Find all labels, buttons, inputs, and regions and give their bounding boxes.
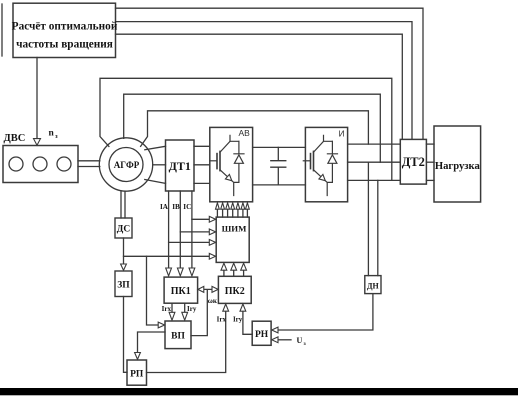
wire: ДТ1 to АВ phase 3 bbox=[194, 182, 210, 184]
arrowhead: Iry into ПК2 bbox=[240, 304, 246, 311]
wire: ДТ2 to Нагрузка phase 2 bbox=[426, 161, 434, 163]
arrowhead: PWM 4 into АВ bbox=[231, 203, 235, 209]
wire: current IB down to ПК1 bbox=[179, 191, 181, 268]
wire: calc box output 2 to ДТ2 top bbox=[116, 22, 413, 140]
wire: И to ДТ2 phase h3 bbox=[348, 179, 401, 181]
arrowhead: PWM 2 into АВ bbox=[221, 203, 225, 209]
svg-text:n: n bbox=[49, 129, 55, 139]
wire: DC bus negative АВ-И bbox=[253, 184, 306, 186]
svg-text:IA: IA bbox=[160, 203, 169, 211]
wire: IA tap to ШИМ bbox=[169, 241, 210, 243]
svg-text:ДТ1: ДТ1 bbox=[169, 159, 191, 173]
arrowhead: PWM 6 into АВ bbox=[241, 203, 245, 209]
arrowhead: Irx into ВП bbox=[169, 312, 175, 320]
arrowhead: into РП top bbox=[135, 353, 141, 360]
arrowhead: ПК2 out2 into ШИМ bbox=[231, 263, 237, 270]
wire: ДН tap from h3 bbox=[377, 180, 379, 275]
wire: ПК2 output 3 up to ШИМ bbox=[243, 270, 245, 276]
svg-text:Irx: Irx bbox=[217, 315, 227, 323]
svg-text:РН: РН bbox=[255, 330, 269, 340]
wire: ДН tap from h2 bbox=[367, 162, 369, 275]
wire: РН output to ПК2 Iry bbox=[243, 311, 252, 334]
wire: stub at left page edge bbox=[1, 4, 3, 56]
arrowhead: speed into ШИМ bbox=[209, 253, 215, 259]
arrowhead: IA tap into ШИМ bbox=[209, 240, 215, 246]
svg-text:ДТ2: ДТ2 bbox=[402, 155, 425, 169]
arrowhead: ПК2 out1 into ШИМ bbox=[221, 263, 227, 270]
block ДВС (engine) bbox=[3, 146, 78, 183]
arrowhead: PWM 5 into АВ bbox=[236, 203, 240, 209]
wire: stator phase A from АГФР to bus h3 bbox=[100, 78, 392, 180]
svg-text:ШИМ: ШИМ bbox=[222, 223, 248, 233]
arrowhead: n3 into ДВС bbox=[34, 139, 41, 146]
transistor VT with diode inside АВ bbox=[210, 135, 244, 195]
arrowhead: IB tap into ШИМ bbox=[209, 229, 215, 235]
wire: И to ДТ2 phase h1 bbox=[348, 143, 401, 145]
machine АГФР inner circle bbox=[109, 148, 143, 182]
block ПК1 coordinate converter 1 bbox=[164, 277, 198, 303]
svg-text:Irx: Irx bbox=[162, 305, 172, 313]
wire: ВП left to РП bbox=[138, 332, 166, 353]
black separator bar bbox=[0, 388, 518, 395]
wire: ДТ1 to АВ phase 2 bbox=[194, 164, 210, 166]
svg-text:ДН: ДН bbox=[367, 282, 380, 291]
block ДС speed sensor bbox=[115, 218, 132, 238]
arrowhead: IB into ПК1 bbox=[177, 268, 183, 276]
svg-text:ωк: ωк bbox=[208, 297, 218, 305]
transistor VT with diode inside И bbox=[303, 135, 337, 195]
wire: PWM gate line 6 to АВ bbox=[242, 209, 244, 217]
block ШИМ PWM bbox=[216, 217, 249, 262]
svg-text:ЗП: ЗП bbox=[117, 281, 130, 291]
wire: ДС output down to ЗП bbox=[123, 238, 125, 264]
block РП regulator bbox=[127, 360, 147, 385]
wire: speed branch to ВП bbox=[147, 256, 159, 325]
block ВП computing unit bbox=[165, 321, 191, 349]
svg-text:Iry: Iry bbox=[233, 315, 243, 323]
wire: rotor lead bottom to ДТ1 bbox=[145, 180, 166, 184]
arrowhead: speed into ВП bbox=[158, 322, 164, 328]
arrowhead: PWM 7 into АВ bbox=[246, 203, 250, 209]
svg-text:АВ: АВ bbox=[239, 128, 251, 138]
capacitor C DC-link bbox=[271, 147, 286, 185]
svg-text:ВП: ВП bbox=[171, 332, 185, 342]
wire: calc box output 3 to ДТ2 top bbox=[116, 34, 403, 139]
svg-text:IC: IC bbox=[183, 203, 191, 211]
engine cylinder circle 2 bbox=[33, 157, 47, 171]
wire: ПК1 output Iry down to ВП bbox=[184, 303, 186, 312]
wire: ДТ1 to АВ phase 1 bbox=[194, 145, 210, 147]
svg-text:ДС: ДС bbox=[117, 225, 131, 235]
block ДН voltage sensor bbox=[365, 276, 381, 294]
block: Расчёт оптимальной частоты вращения bbox=[13, 3, 116, 57]
svg-text:И: И bbox=[339, 129, 345, 139]
block РН voltage regulator bbox=[252, 321, 271, 345]
machine АГФР outer circle bbox=[99, 138, 152, 191]
svg-text:ПК2: ПК2 bbox=[225, 286, 245, 297]
arrowhead: ДН into РН bbox=[272, 327, 278, 333]
svg-text:ДВС: ДВС bbox=[4, 133, 26, 144]
wire: ДТ2 to Нагрузка phase 1 bbox=[426, 143, 434, 145]
block ДТ1 current sensor bbox=[166, 140, 195, 191]
wire: shaft ДВС-АГФР lower bbox=[78, 166, 100, 168]
svg-text:з: з bbox=[55, 133, 58, 140]
arrowhead: ωк into ПК2 bbox=[212, 286, 218, 292]
wire: И to ДТ2 phase h2 bbox=[348, 161, 401, 163]
wire: U3 setpoint into РН bbox=[278, 339, 291, 341]
svg-text:Iry: Iry bbox=[187, 305, 197, 313]
block АВ active rectifier bbox=[210, 127, 253, 201]
arrowhead: PWM 1 into АВ bbox=[216, 203, 220, 209]
wire: shaft АГФР down to ДС left line bbox=[120, 191, 122, 218]
wire: current IA down to ПК1 bbox=[168, 191, 170, 268]
wire: calc box output 1 to ДТ2 top bbox=[116, 8, 424, 139]
wire: ДН output to РН bbox=[278, 294, 373, 330]
block ЗП setpoint bbox=[115, 271, 132, 297]
wire: ПК2 output 1 up to ШИМ bbox=[223, 270, 225, 276]
arrowhead: U3 into РН bbox=[272, 337, 278, 343]
wire: IC tap to ШИМ bbox=[192, 218, 209, 220]
arrowhead: Iry into ВП bbox=[182, 312, 188, 320]
wire: PWM gate line 4 to АВ bbox=[232, 209, 234, 217]
wire: PWM gate line 3 to АВ bbox=[227, 209, 229, 217]
arrowhead: IC tap into ШИМ bbox=[209, 216, 215, 222]
wire: РП output to ПК2 Irx bbox=[147, 311, 226, 372]
wire: ДТ2 to Нагрузка phase 3 bbox=[426, 179, 434, 181]
wire: ВП output ωк to tee bbox=[191, 289, 212, 335]
arrowhead: Irx into ПК2 bbox=[223, 304, 229, 311]
arrowhead: ДС into ЗП bbox=[121, 264, 127, 270]
wire: DC bus positive АВ-И bbox=[253, 146, 306, 148]
wire: rotor lead mid to ДТ1 bbox=[153, 164, 166, 166]
svg-text:АГФР: АГФР bbox=[114, 160, 140, 170]
arrowhead: PWM 3 into АВ bbox=[226, 203, 230, 209]
wire: ЗП down to РП bbox=[124, 297, 128, 373]
arrowhead: IA into ПК1 bbox=[166, 268, 172, 276]
engine cylinder circle 1 bbox=[9, 157, 23, 171]
arrowhead: IC into ПК1 bbox=[189, 268, 195, 276]
wire: stator phase C from АГФР to bus h1 bbox=[141, 111, 369, 147]
arrowhead: ПК2 out3 into ШИМ bbox=[241, 263, 247, 270]
block Нагрузка load bbox=[434, 126, 481, 202]
wire: rotor lead top to ДТ1 bbox=[145, 146, 166, 150]
block ДТ2 current sensor bbox=[400, 139, 426, 184]
wire: ПК2 output 2 up to ШИМ bbox=[233, 270, 235, 276]
block ПК2 coordinate converter 2 bbox=[218, 276, 251, 303]
wire: current IC down to ПК1 bbox=[191, 191, 193, 268]
svg-text:частоты вращения: частоты вращения bbox=[16, 39, 113, 51]
svg-text:Расчёт оптимальной: Расчёт оптимальной bbox=[12, 21, 118, 33]
wire: PWM gate line 5 to АВ bbox=[237, 209, 239, 217]
wire: speed signal to ШИМ bbox=[124, 255, 210, 257]
wire: IB tap to ШИМ bbox=[180, 231, 209, 233]
svg-text:РП: РП bbox=[130, 369, 144, 379]
svg-text:U: U bbox=[297, 336, 303, 345]
wire: PWM gate line 2 to АВ bbox=[222, 209, 224, 217]
svg-text:Нагрузка: Нагрузка bbox=[435, 161, 481, 172]
wire: PWM gate line 7 to АВ bbox=[246, 209, 248, 217]
svg-text:IB: IB bbox=[172, 203, 180, 211]
engine cylinder circle 3 bbox=[57, 157, 71, 171]
svg-text:ПК1: ПК1 bbox=[171, 286, 191, 297]
wire: PWM gate line 1 to АВ bbox=[216, 209, 218, 217]
wire: shaft АГФР down to ДС right line bbox=[124, 191, 126, 218]
wire: n3 setpoint down to ДВС bbox=[36, 58, 38, 139]
wire: ПК1 output Irx down to ВП bbox=[171, 303, 173, 312]
block И inverter bbox=[305, 127, 347, 201]
arrowhead: ωк into ПК1 bbox=[198, 286, 204, 292]
wire: stator phase B from АГФР to bus h2 bbox=[124, 94, 381, 162]
wire: shaft ДВС-АГФР upper bbox=[78, 160, 100, 162]
